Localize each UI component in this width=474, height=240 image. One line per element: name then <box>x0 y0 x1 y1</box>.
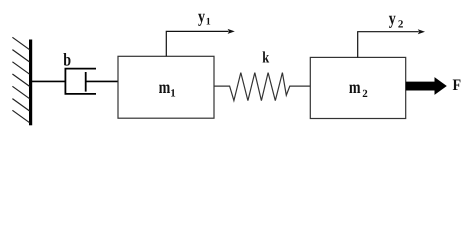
svg-text:2: 2 <box>398 18 404 30</box>
label F <box>453 77 462 94</box>
wall hatch 6 <box>12 99 29 111</box>
y2 indicator line <box>358 32 419 58</box>
y1 arrowhead <box>228 29 235 34</box>
y2 arrowhead <box>418 29 425 34</box>
svg-text:1: 1 <box>170 87 176 99</box>
wall hatch 7 <box>12 110 29 122</box>
label k <box>262 50 269 67</box>
label b <box>63 49 71 69</box>
wall hatch 5 <box>12 86 29 98</box>
wire wall to damper <box>32 80 66 82</box>
force F arrow <box>406 77 447 95</box>
svg-text:b: b <box>63 49 71 69</box>
y1 indicator line <box>166 31 228 56</box>
svg-text:y: y <box>198 6 205 26</box>
svg-text:2: 2 <box>362 88 368 100</box>
wall hatch 1 <box>12 37 29 49</box>
svg-text:m: m <box>159 77 171 97</box>
label m1 <box>159 77 176 99</box>
wall hatch 2 <box>12 50 29 62</box>
wall hatch 4 <box>12 74 29 86</box>
svg-text:m: m <box>349 77 361 97</box>
label y1 <box>198 6 211 27</box>
label y2 <box>389 8 404 30</box>
svg-text:k: k <box>262 50 269 67</box>
svg-text:y: y <box>389 8 396 28</box>
spring k <box>214 73 310 101</box>
wall <box>29 40 32 126</box>
svg-text:1: 1 <box>206 16 211 27</box>
mass m2 box <box>310 57 405 118</box>
svg-text:F: F <box>453 77 462 94</box>
damper b piston <box>85 72 87 92</box>
damper b cylinder <box>65 69 96 94</box>
label m2 <box>349 77 368 100</box>
wire damper to m1 <box>86 80 118 82</box>
wall hatch 3 <box>12 62 29 74</box>
mass m1 box <box>118 56 214 118</box>
